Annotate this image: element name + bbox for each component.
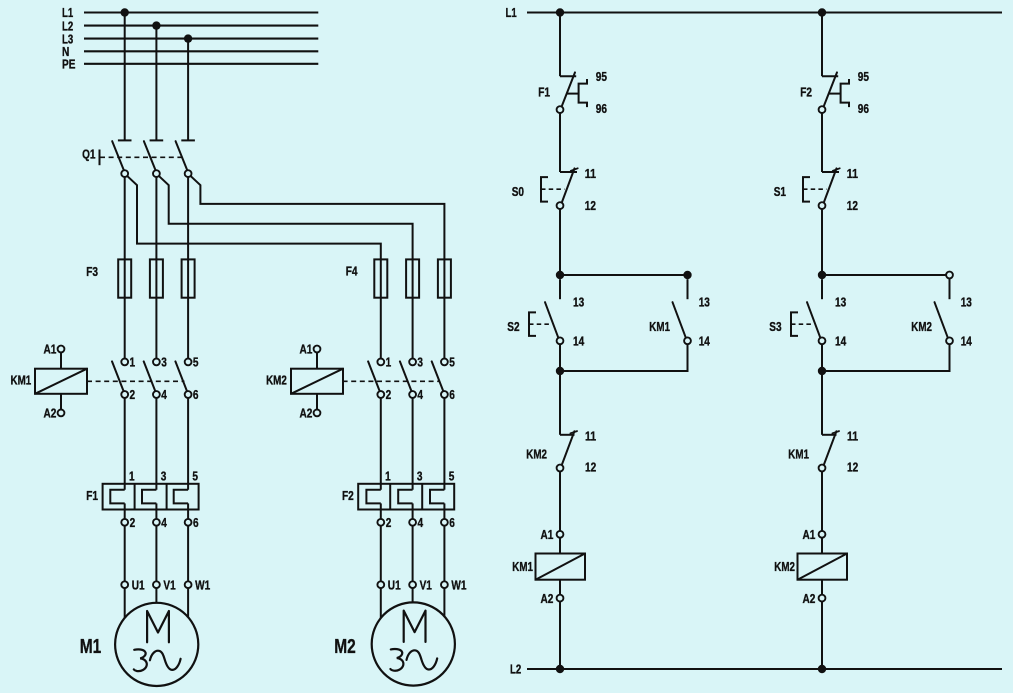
start pushbutton S3 NO (13-14) bbox=[769, 294, 846, 348]
svg-text:KM1: KM1 bbox=[512, 559, 533, 574]
wire F1 element 4 to terminal bbox=[153, 503, 167, 530]
svg-text:5: 5 bbox=[193, 355, 199, 370]
svg-text:14: 14 bbox=[961, 333, 973, 348]
svg-text:A1: A1 bbox=[300, 342, 313, 357]
fuse group F4 bbox=[346, 259, 451, 297]
svg-text:4: 4 bbox=[417, 387, 423, 402]
wire F1 element 2 to terminal bbox=[121, 503, 135, 530]
svg-text:A2: A2 bbox=[803, 591, 816, 606]
svg-text:4: 4 bbox=[161, 387, 167, 402]
svg-text:3: 3 bbox=[417, 468, 423, 483]
svg-text:14: 14 bbox=[835, 333, 847, 348]
mechanical link KM2 coil to contacts bbox=[343, 380, 440, 382]
thermal overload NC contact F1 (95-96) bbox=[538, 69, 607, 116]
fuse group F3 bbox=[86, 259, 194, 297]
svg-text:5: 5 bbox=[192, 468, 198, 483]
svg-text:13: 13 bbox=[573, 294, 584, 309]
svg-text:6: 6 bbox=[449, 515, 455, 530]
svg-text:A1: A1 bbox=[803, 527, 816, 542]
svg-text:14: 14 bbox=[699, 333, 711, 348]
svg-text:12: 12 bbox=[585, 198, 596, 213]
contactor coil KM1 (power section) bbox=[11, 342, 88, 421]
svg-text:1: 1 bbox=[385, 468, 391, 483]
auxiliary contact KM1 NO (13-14) bbox=[649, 294, 710, 348]
wire Q1 pole 2 down to KM1 contact bbox=[155, 177, 157, 359]
stop pushbutton S0 NC (11-12) bbox=[512, 166, 596, 213]
svg-text:A2: A2 bbox=[300, 406, 313, 421]
mechanical link KM1 coil to contacts bbox=[87, 380, 185, 382]
wire Q1 pole 1 feeder to F4 fuse 1 bbox=[127, 176, 381, 359]
auxiliary contact KM2 NO (13-14) bbox=[911, 294, 972, 348]
wire KM2 contact pole 1 to overload bbox=[380, 398, 382, 490]
svg-text:11: 11 bbox=[847, 166, 858, 181]
motor terminal U1 of M2 bbox=[377, 526, 400, 593]
contactor coil KM2 (control) bbox=[774, 527, 847, 606]
bus L2 bbox=[62, 18, 318, 33]
contactor KM2 main contact pole 1 bbox=[368, 355, 391, 403]
wire Q1 pole 3 feeder to F4 fuse 3 bbox=[190, 176, 444, 359]
junction on L2 bbox=[818, 665, 826, 673]
svg-text:96: 96 bbox=[858, 101, 869, 116]
svg-text:2: 2 bbox=[130, 515, 136, 530]
wire S2 to lower node bbox=[559, 344, 561, 371]
wire S3 to lower node bbox=[821, 344, 823, 371]
svg-text:U1: U1 bbox=[132, 577, 145, 592]
motor terminal U1 of M1 bbox=[121, 526, 144, 593]
wire KM1 14 to lower node bbox=[560, 344, 688, 371]
svg-text:F2: F2 bbox=[800, 84, 812, 99]
svg-text:F4: F4 bbox=[346, 263, 358, 278]
svg-text:4: 4 bbox=[161, 515, 167, 530]
svg-text:A1: A1 bbox=[44, 342, 57, 357]
terminal (open) on seal-in link bbox=[946, 272, 953, 279]
svg-text:F1: F1 bbox=[86, 488, 98, 503]
wire F2 element 2 to terminal bbox=[377, 503, 391, 530]
bus N bbox=[62, 44, 318, 59]
wire seal-in link to KM2 bbox=[822, 274, 950, 276]
svg-text:W1: W1 bbox=[195, 577, 210, 592]
wire KM1 contact pole 1 to overload bbox=[124, 398, 126, 490]
motor terminal W1 of M1 bbox=[185, 526, 211, 593]
svg-text:L2: L2 bbox=[510, 662, 521, 677]
wire KM1 contact pole 3 to overload bbox=[187, 398, 189, 490]
wire F1 element 6 to terminal bbox=[185, 503, 199, 530]
svg-text:F2: F2 bbox=[342, 488, 354, 503]
svg-text:11: 11 bbox=[585, 166, 596, 181]
wire coil KM1 to L2 bbox=[559, 602, 561, 670]
motor M1 bbox=[80, 603, 198, 686]
svg-text:2: 2 bbox=[130, 387, 136, 402]
wire U1 to M1 body bbox=[124, 588, 126, 619]
svg-text:L1: L1 bbox=[506, 5, 517, 20]
thermal overload relay F1 bbox=[86, 468, 198, 509]
contactor KM2 main contact pole 2 bbox=[400, 355, 424, 403]
svg-text:3: 3 bbox=[161, 468, 167, 483]
svg-text:13: 13 bbox=[699, 294, 710, 309]
svg-text:KM2: KM2 bbox=[266, 373, 287, 388]
svg-text:13: 13 bbox=[835, 294, 846, 309]
wire node to S3 bbox=[821, 279, 823, 299]
svg-text:13: 13 bbox=[961, 294, 972, 309]
svg-text:14: 14 bbox=[573, 333, 585, 348]
svg-text:S2: S2 bbox=[507, 319, 519, 334]
svg-text:Q1: Q1 bbox=[82, 147, 95, 162]
interlock contact KM2 NC (11-12) bbox=[526, 428, 596, 474]
junction on L2 bbox=[556, 665, 564, 673]
svg-text:12: 12 bbox=[585, 460, 596, 475]
motor terminal V1 of M2 bbox=[409, 526, 432, 593]
svg-text:S1: S1 bbox=[774, 184, 786, 199]
svg-text:KM1: KM1 bbox=[11, 373, 32, 388]
junction on L1 at x=822 bbox=[818, 8, 826, 16]
wire down to KM2 contact bbox=[949, 278, 951, 299]
svg-text:6: 6 bbox=[193, 515, 199, 530]
svg-text:W1: W1 bbox=[451, 577, 466, 592]
wire Q1 pole 1 down to KM1 contact bbox=[124, 177, 126, 359]
svg-text:1: 1 bbox=[129, 468, 135, 483]
motor terminal W1 of M2 bbox=[441, 526, 467, 593]
wire V1 to M1 body bbox=[155, 588, 157, 603]
junction lower node bbox=[556, 367, 564, 375]
bus PE bbox=[62, 57, 318, 72]
svg-text:95: 95 bbox=[858, 69, 869, 84]
svg-text:M2: M2 bbox=[334, 636, 356, 658]
junction lower node bbox=[818, 367, 826, 375]
wire KM2 to coil KM1 bbox=[559, 471, 561, 531]
svg-text:3: 3 bbox=[417, 355, 423, 370]
wire L1 to F1 bbox=[559, 13, 561, 77]
contactor KM1 main contact pole 3 bbox=[175, 355, 198, 403]
contactor KM1 main contact pole 2 bbox=[144, 355, 168, 403]
thermal overload relay F2 bbox=[342, 468, 454, 509]
svg-text:96: 96 bbox=[596, 101, 607, 116]
junction node (start/seal) bbox=[556, 271, 564, 279]
interlock contact KM1 NC (11-12) bbox=[788, 428, 858, 474]
wire KM1 to coil KM2 bbox=[821, 471, 823, 531]
wire down to KM1 contact bbox=[687, 279, 689, 299]
svg-text:A2: A2 bbox=[44, 406, 57, 421]
svg-text:KM2: KM2 bbox=[774, 559, 795, 574]
bus L3 bbox=[62, 31, 318, 46]
start pushbutton S2 NO (13-14) bbox=[507, 294, 584, 348]
wire Q1 pole 2 feeder to F4 fuse 2 bbox=[159, 176, 413, 359]
svg-text:2: 2 bbox=[386, 515, 392, 530]
wire seal-in link to KM1 bbox=[560, 274, 688, 276]
svg-text:4: 4 bbox=[418, 515, 424, 530]
svg-text:A2: A2 bbox=[541, 591, 554, 606]
wire lower node to KM1 interlock bbox=[821, 371, 823, 435]
wire Q1 pole 3 down to KM1 contact bbox=[187, 177, 189, 359]
contactor KM1 main contact pole 1 bbox=[112, 355, 135, 403]
junction on seal-in link bbox=[683, 271, 691, 279]
svg-text:3: 3 bbox=[161, 355, 167, 370]
wire lower node to KM2 interlock bbox=[559, 371, 561, 435]
svg-text:S0: S0 bbox=[512, 184, 524, 199]
wire KM2 14 to lower node bbox=[822, 344, 950, 371]
svg-text:A1: A1 bbox=[541, 527, 554, 542]
wire KM2 contact pole 3 to overload bbox=[443, 398, 445, 490]
svg-text:1: 1 bbox=[130, 355, 136, 370]
wire F2 element 4 to terminal bbox=[409, 503, 423, 530]
svg-text:6: 6 bbox=[449, 387, 455, 402]
svg-text:12: 12 bbox=[847, 460, 858, 475]
wire S0 to node bbox=[559, 209, 561, 275]
wire L1 to F2 bbox=[821, 13, 823, 77]
wire tap from L3 to Q1 pole 3 bbox=[184, 34, 192, 140]
contactor KM2 main contact pole 3 bbox=[432, 355, 455, 403]
wire W1 to M1 body bbox=[187, 588, 189, 619]
svg-text:12: 12 bbox=[847, 198, 858, 213]
wire V1 to M2 body bbox=[412, 588, 414, 603]
svg-text:S3: S3 bbox=[769, 319, 781, 334]
stop pushbutton S1 NC (11-12) bbox=[774, 166, 858, 213]
motor M2 bbox=[334, 602, 455, 685]
wire F2 element 6 to terminal bbox=[441, 503, 455, 530]
svg-text:2: 2 bbox=[386, 387, 392, 402]
svg-text:6: 6 bbox=[193, 387, 199, 402]
wire tap from L2 to Q1 pole 2 bbox=[152, 21, 160, 140]
svg-text:5: 5 bbox=[449, 355, 455, 370]
motor terminal V1 of M1 bbox=[153, 526, 176, 593]
bus L1 bbox=[62, 5, 318, 20]
svg-text:U1: U1 bbox=[388, 577, 401, 592]
svg-text:KM1: KM1 bbox=[649, 319, 670, 334]
svg-text:KM1: KM1 bbox=[788, 447, 809, 462]
svg-text:F3: F3 bbox=[86, 264, 98, 279]
node L2 (control rail) bbox=[510, 662, 1002, 677]
wire KM1 contact pole 2 to overload bbox=[155, 398, 157, 490]
contactor coil KM2 (power section) bbox=[266, 342, 343, 421]
svg-text:V1: V1 bbox=[420, 577, 432, 592]
svg-text:PE: PE bbox=[62, 57, 76, 72]
svg-text:5: 5 bbox=[449, 468, 455, 483]
svg-text:F1: F1 bbox=[538, 84, 550, 99]
wire F1 to S0 bbox=[559, 113, 561, 172]
node L1 (control rail) bbox=[506, 5, 1003, 20]
wire coil KM2 to L2 bbox=[821, 602, 823, 670]
wire W1 to M2 body bbox=[443, 588, 445, 619]
svg-text:95: 95 bbox=[596, 69, 607, 84]
wire U1 to M2 body bbox=[380, 588, 382, 619]
contactor coil KM1 (control) bbox=[512, 527, 585, 606]
svg-text:11: 11 bbox=[585, 428, 596, 443]
svg-text:KM2: KM2 bbox=[526, 447, 547, 462]
wire tap from L1 to Q1 pole 1 bbox=[121, 8, 129, 140]
svg-text:1: 1 bbox=[386, 355, 392, 370]
junction on L1 at x=560 bbox=[556, 8, 564, 16]
thermal overload NC contact F2 (95-96) bbox=[800, 69, 869, 116]
svg-text:V1: V1 bbox=[163, 577, 175, 592]
svg-text:KM2: KM2 bbox=[911, 319, 932, 334]
wire KM2 contact pole 2 to overload bbox=[412, 398, 414, 490]
disconnector Q1 bbox=[82, 140, 195, 177]
wire node to S2 bbox=[559, 279, 561, 299]
wire S1 to node bbox=[821, 209, 823, 275]
junction node (start/seal) bbox=[818, 271, 826, 279]
wire F2 to S1 bbox=[821, 113, 823, 172]
svg-text:11: 11 bbox=[847, 428, 858, 443]
svg-text:M1: M1 bbox=[80, 636, 102, 658]
